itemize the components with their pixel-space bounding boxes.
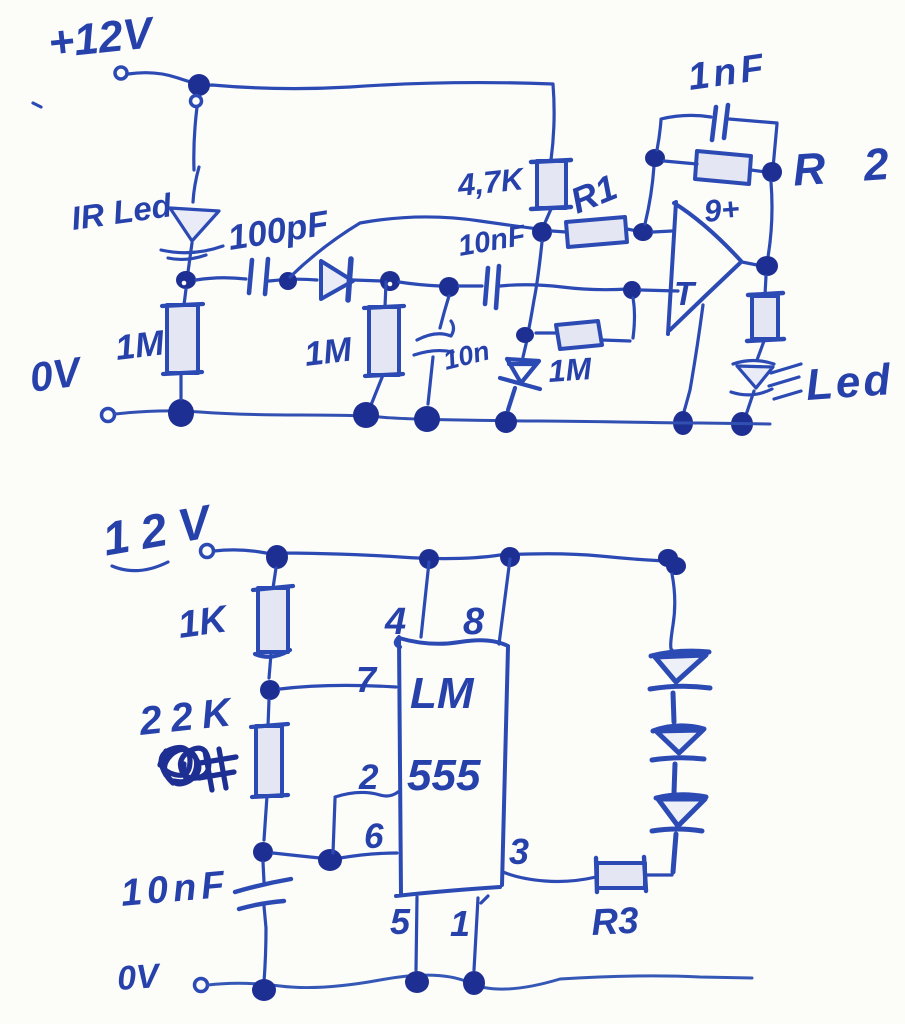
stray pen mark <box>33 103 41 107</box>
junction gnd 1M1 <box>168 399 194 427</box>
svg-text:1: 1 <box>450 903 470 944</box>
wire pin 4 <box>421 562 429 637</box>
wire ground rail top circuit <box>115 411 770 424</box>
IR photodiode D_IR <box>170 208 219 241</box>
junction pin2 tie <box>318 849 342 871</box>
svg-text:1M: 1M <box>302 330 354 374</box>
svg-text:1M: 1M <box>547 351 594 389</box>
wire diode to node <box>353 280 382 281</box>
svg-text:3: 3 <box>509 831 529 872</box>
terminal +12V <box>115 67 127 79</box>
svg-text:0V: 0V <box>27 348 87 401</box>
capacitor 10nF series <box>485 266 499 308</box>
wire op-amp output <box>742 262 757 265</box>
svg-text:6: 6 <box>364 817 384 856</box>
junction LED ground <box>731 412 753 436</box>
junction top rail <box>188 74 210 96</box>
wire ground rail bottom circuit <box>208 975 752 989</box>
resistor 22K <box>256 726 282 796</box>
junction gnd zener <box>495 411 517 433</box>
wire pin 8 <box>499 559 510 644</box>
resistor R3 <box>597 863 645 888</box>
resistor 1M feedback <box>556 321 602 349</box>
terminal 0V bottom <box>195 979 208 992</box>
wire LED chain top <box>671 574 675 650</box>
wire to 100pF <box>196 278 246 280</box>
wire to series 10n cap <box>459 284 482 287</box>
svg-text:1M: 1M <box>113 323 167 368</box>
junction diode-1M node <box>380 271 400 291</box>
svg-text:10nF: 10nF <box>456 219 529 262</box>
junction rail pin8 <box>500 547 520 567</box>
wire pins 2 and 6 <box>273 853 397 858</box>
resistor 4.7K <box>537 161 566 208</box>
junction IR led cathode node <box>176 271 196 289</box>
LED output indicator <box>733 361 774 365</box>
svg-text:T: T <box>674 275 697 312</box>
scribble crossed-out <box>160 748 236 791</box>
junction output node <box>756 256 778 276</box>
svg-text:LM: LM <box>410 669 475 718</box>
label 12V tail stroke <box>112 562 168 571</box>
junction gnd cap <box>252 979 276 1001</box>
junction gnd 10n <box>414 406 440 432</box>
svg-text:7: 7 <box>356 659 378 700</box>
svg-text:R 2: R 2 <box>791 137 903 195</box>
svg-text:R1: R1 <box>565 166 623 221</box>
junction R1 right / plus input <box>633 223 653 241</box>
resistor R1 <box>566 217 627 247</box>
LED chain D2 <box>650 651 710 722</box>
capacitor 1nF loop <box>657 115 777 168</box>
op-amp U1 <box>668 202 741 334</box>
resistor LED series <box>752 296 778 339</box>
junction gnd pin1 <box>463 971 485 995</box>
wire top supply rail <box>128 73 554 160</box>
svg-text:5: 5 <box>390 901 411 942</box>
svg-text:0V: 0V <box>116 957 163 998</box>
capacitor 10n shunt <box>440 296 449 328</box>
resistor 1M second <box>369 307 399 375</box>
junction 10n shunt node <box>439 277 459 297</box>
wire node to node <box>399 282 440 286</box>
wire pin 1 <box>474 896 488 970</box>
wire op-amp ground pin <box>683 305 703 415</box>
resistor 1M first <box>167 305 198 373</box>
svg-text:9+: 9+ <box>703 191 741 229</box>
capacitor 10nF timing <box>263 862 264 882</box>
junction rail pin4 <box>419 549 439 569</box>
junction R2 right <box>762 162 782 182</box>
diode D1 <box>321 261 353 299</box>
terminal 12V bottom <box>201 545 214 558</box>
junction rail LED chain <box>658 549 678 567</box>
svg-text:8: 8 <box>463 601 485 643</box>
svg-text:555: 555 <box>407 751 481 800</box>
svg-text:22K: 22K <box>136 690 241 744</box>
wire plus input <box>653 231 672 232</box>
junction 22K bottom <box>253 842 273 862</box>
svg-text:IR Led: IR Led <box>69 186 175 237</box>
wire diagonal to 4.7K bottom node <box>290 217 538 277</box>
junction zener top <box>516 327 534 343</box>
svg-text:R3: R3 <box>590 900 640 943</box>
junction rail 1K <box>266 545 288 569</box>
resistor 1K <box>258 588 288 652</box>
junction inverting input node <box>623 281 641 299</box>
svg-text:+12V: +12V <box>46 8 158 68</box>
wire 100pF to diode <box>269 279 317 281</box>
wire node up to feedback <box>645 166 654 224</box>
svg-text:100pF: 100pF <box>225 203 333 258</box>
junction 1K bottom pin7 <box>260 680 280 700</box>
wire R2 right down to output <box>768 182 772 257</box>
svg-text:12V: 12V <box>99 493 226 566</box>
junction gnd pin5 <box>405 971 429 993</box>
wire to IR led anode <box>193 107 199 202</box>
LED chain D4 <box>652 795 706 872</box>
wire pin 5 <box>416 897 417 970</box>
svg-text:10nF: 10nF <box>119 864 231 915</box>
LED chain D3 <box>652 726 704 793</box>
wire pin 3 <box>503 872 596 882</box>
terminal 0V top <box>102 409 115 422</box>
junction feedback left <box>645 149 665 167</box>
wire pin 2 loop <box>333 792 398 853</box>
wire 4.7K node down <box>529 242 542 328</box>
junction cap-diode node <box>279 272 297 290</box>
svg-text:4: 4 <box>384 601 406 643</box>
svg-text:1nF: 1nF <box>685 46 770 99</box>
IC LM555 U2 <box>396 637 508 896</box>
zener diode <box>523 340 527 357</box>
junction op-amp ground <box>673 411 693 435</box>
svg-text:2: 2 <box>358 758 379 797</box>
LED rays <box>769 364 801 399</box>
svg-text:1K: 1K <box>175 598 231 647</box>
svg-text:10n: 10n <box>440 335 492 375</box>
resistor R2 <box>695 151 751 184</box>
svg-text:Led: Led <box>804 355 894 410</box>
wire pin 7 <box>280 685 396 689</box>
capacitor 100pF <box>249 259 268 294</box>
wire into op-amp minus input <box>641 290 678 291</box>
junction gnd 1M2 <box>353 402 379 428</box>
wire top rail bottom circuit <box>214 550 668 561</box>
wire cap to inverting input <box>500 285 628 290</box>
svg-text:4,7K: 4,7K <box>455 161 527 203</box>
junction 4.7K bottom <box>532 222 552 242</box>
